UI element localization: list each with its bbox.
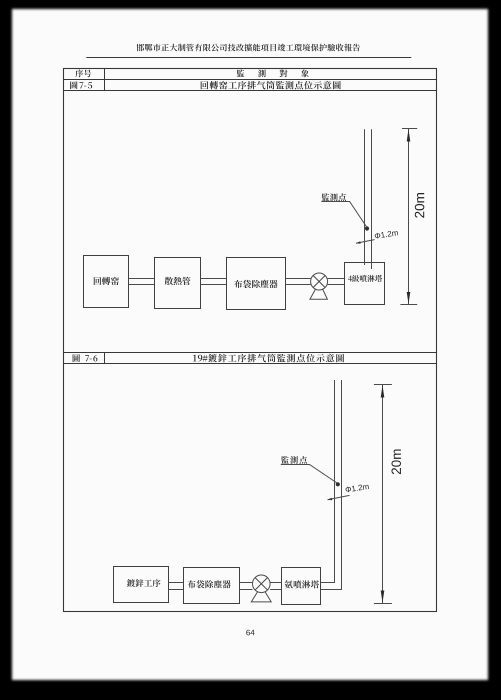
table: row line under header row	[64, 79, 436, 81]
text: table cell 监测对象	[237, 69, 309, 77]
table: row line under 图7-6 row	[64, 363, 436, 365]
text: 20m (diagram 2, rotated)	[391, 449, 401, 474]
pipe: 回转窑 → 散热管	[129, 279, 155, 285]
text: box label 回转窑	[94, 277, 119, 285]
text: box label 布袋除尘器 (diagram 2)	[188, 580, 231, 588]
text: box label 氨喷淋塔	[285, 580, 320, 588]
text: page number 64	[246, 630, 254, 636]
rule: header underline	[86, 57, 411, 59]
dimension: bottom arrow (diagram 1)	[407, 292, 411, 304]
stack: exhaust stack (diagram 1)	[365, 129, 372, 269]
fan symbol (diagram 1)	[310, 273, 328, 299]
table: row line under 图7-5 row	[64, 90, 436, 92]
stack: exhaust stack (diagram 2)	[321, 380, 342, 590]
leader: Φ1.2m arrow (diagram 1)	[356, 240, 375, 244]
fan symbol (diagram 2)	[251, 575, 271, 602]
text: box label 布袋除尘器	[234, 280, 277, 288]
text: Φ1.2m (diagram 2)	[345, 483, 369, 492]
leader: Φ1.2m arrow (diagram 2)	[328, 495, 350, 500]
leader: 监测点 callout line (diagram 1)	[321, 202, 366, 227]
text: box label 4级喷淋塔	[348, 275, 382, 282]
text: box label 散热管	[165, 277, 191, 285]
text: 20m (diagram 1, rotated)	[415, 193, 425, 218]
dimension: 20m line (diagram 2)	[374, 385, 392, 604]
text: table cell 图 7-6	[73, 354, 98, 362]
pipe: 布袋除尘器 → fan	[286, 279, 311, 285]
table: column divider (图7-6 row)	[104, 352, 106, 364]
text: box label 镀锌工序	[127, 579, 161, 587]
dimension: top arrow (diagram 2)	[381, 385, 385, 397]
box: 镀锌工序 (galvanizing process)	[114, 567, 169, 603]
box: 氨喷淋塔 (ammonia spray tower)	[282, 568, 321, 605]
node: monitoring point dot (diagram 2)	[336, 482, 340, 486]
pipe: fan → 氨喷淋塔	[270, 583, 282, 590]
box: 布袋除尘器 (bag filter, diagram 2)	[184, 568, 240, 604]
pipe: fan → 4级喷淋塔	[328, 279, 344, 285]
text: table cell 回转窑工序排气筒监测点位示意图	[201, 81, 341, 90]
text: table cell 图7-5	[70, 81, 92, 89]
box: 4级喷淋塔 (4-stage spray tower)	[345, 263, 385, 305]
table: column divider (header rows)	[104, 68, 106, 91]
box: 回转窑 (rotary kiln)	[84, 256, 129, 308]
text: table cell 序号	[75, 70, 91, 78]
dimension: 20m line (diagram 1)	[400, 129, 417, 305]
pipe: 散热管 → 布袋除尘器	[201, 279, 226, 285]
dimension: top arrow (diagram 1)	[407, 129, 411, 141]
pipe: 布袋除尘器 → fan (diagram 2)	[239, 583, 252, 590]
table: outer border	[64, 69, 437, 612]
pipe: 镀锌工序 → 布袋除尘器 (diagram 2)	[168, 583, 183, 590]
text: leader label 监测点 (diagram 2)	[281, 456, 307, 464]
node: monitoring point dot (diagram 1)	[365, 226, 369, 230]
text: header title 邯郸市正大制管有限公司技改扩能项目竣工环境保护验收报告	[136, 44, 360, 52]
text: Φ1.2m (diagram 1)	[374, 230, 398, 239]
dimension: bottom arrow (diagram 2)	[381, 591, 385, 603]
text: leader label 监测点 (diagram 1)	[322, 193, 346, 201]
box: 布袋除尘器 (bag filter)	[227, 258, 286, 310]
box: 散热管 (heat pipe)	[155, 258, 201, 309]
text: table cell 19#镀锌工序排气筒监测点位示意图	[193, 354, 344, 362]
table: row line above 图7-6 row	[64, 352, 436, 354]
leader: 监测点 callout line (diagram 2)	[281, 465, 337, 484]
